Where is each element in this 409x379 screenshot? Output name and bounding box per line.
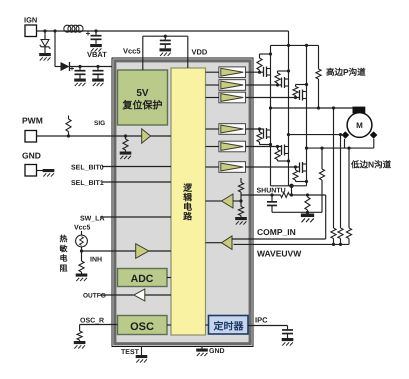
svg-text:OUTFG: OUTFG — [83, 293, 106, 300]
svg-text:路: 路 — [183, 212, 193, 222]
svg-text:电: 电 — [183, 202, 192, 212]
svg-text:复位保护: 复位保护 — [122, 100, 163, 112]
svg-text:PWM: PWM — [22, 116, 43, 126]
svg-text:低边N沟道: 低边N沟道 — [350, 160, 392, 170]
svg-text:COMP_IN: COMP_IN — [257, 227, 296, 237]
svg-text:热: 热 — [60, 235, 68, 244]
svg-text:SIG: SIG — [94, 120, 105, 127]
svg-text:VDD: VDD — [192, 48, 208, 57]
svg-text:5V: 5V — [136, 88, 149, 99]
svg-text:ADC: ADC — [131, 273, 154, 285]
svg-text:GND: GND — [22, 151, 41, 161]
svg-text:SHUNTU: SHUNTU — [257, 188, 286, 195]
svg-text:SW_LA: SW_LA — [80, 215, 105, 222]
svg-text:WAVEUVW: WAVEUVW — [257, 249, 302, 259]
svg-text:敏: 敏 — [59, 244, 69, 253]
svg-text:SEL_BIT1: SEL_BIT1 — [71, 180, 104, 187]
svg-text:逻: 逻 — [183, 183, 193, 193]
svg-text:阻: 阻 — [60, 264, 68, 273]
svg-text:OSC: OSC — [130, 321, 154, 333]
svg-text:INH: INH — [90, 257, 102, 264]
svg-text:SEL_BIT0: SEL_BIT0 — [71, 164, 104, 171]
svg-text:电: 电 — [60, 254, 68, 263]
svg-text:VBAT: VBAT — [87, 50, 107, 59]
svg-text:高边P沟道: 高边P沟道 — [326, 67, 366, 77]
svg-text:定时器: 定时器 — [213, 320, 245, 332]
svg-text:IGN: IGN — [24, 16, 37, 25]
svg-text:辑: 辑 — [183, 193, 192, 203]
svg-text:OSC_R: OSC_R — [80, 318, 104, 325]
svg-text:Vcc5: Vcc5 — [74, 225, 90, 232]
svg-text:Vcc5: Vcc5 — [123, 47, 141, 56]
svg-text:TEST: TEST — [121, 349, 140, 356]
svg-text:M: M — [356, 121, 363, 130]
svg-text:IPC: IPC — [255, 316, 268, 325]
svg-text:GND: GND — [209, 348, 225, 355]
